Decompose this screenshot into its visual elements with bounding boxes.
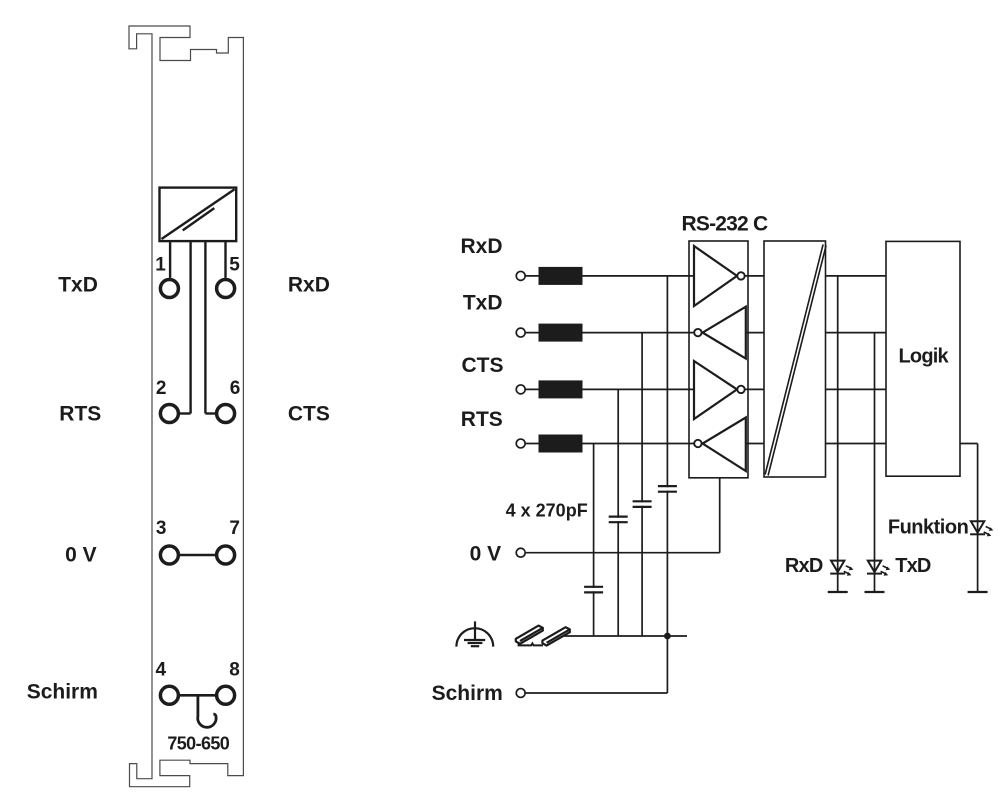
- svg-text:0 V: 0 V: [65, 544, 97, 567]
- svg-text:Schirm: Schirm: [27, 681, 98, 704]
- svg-text:7: 7: [229, 518, 240, 539]
- svg-text:TxD: TxD: [463, 292, 503, 315]
- svg-text:8: 8: [229, 660, 240, 681]
- svg-text:Schirm: Schirm: [432, 682, 503, 705]
- svg-text:Logik: Logik: [899, 345, 950, 367]
- svg-text:CTS: CTS: [288, 403, 330, 426]
- svg-text:1: 1: [155, 254, 166, 275]
- svg-text:RS-232 C: RS-232 C: [682, 212, 768, 235]
- svg-text:Funktion: Funktion: [888, 516, 968, 538]
- svg-text:4 x 270pF: 4 x 270pF: [506, 501, 588, 521]
- svg-text:750-650: 750-650: [167, 734, 229, 754]
- svg-text:RxD: RxD: [460, 235, 502, 258]
- svg-text:RxD: RxD: [288, 273, 330, 296]
- svg-text:6: 6: [230, 378, 241, 399]
- svg-text:TxD: TxD: [58, 273, 98, 296]
- svg-text:RxD: RxD: [785, 555, 823, 577]
- svg-text:0 V: 0 V: [470, 543, 502, 566]
- svg-text:2: 2: [156, 378, 167, 399]
- svg-text:CTS: CTS: [462, 354, 504, 377]
- svg-text:5: 5: [229, 254, 240, 275]
- svg-text:RTS: RTS: [461, 408, 503, 431]
- svg-text:4: 4: [156, 660, 167, 681]
- svg-text:RTS: RTS: [59, 403, 101, 426]
- svg-text:TxD: TxD: [895, 555, 931, 577]
- svg-text:3: 3: [156, 518, 167, 539]
